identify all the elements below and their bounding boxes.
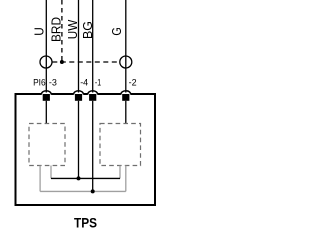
svg-text:PI6: PI6 (33, 77, 46, 87)
svg-text:-4: -4 (80, 77, 88, 87)
connector bump pin -2 (121, 91, 131, 95)
wire G (vertical, to connector pin -2) (125, 0, 127, 93)
connector bump pin -3 (41, 91, 51, 95)
wire pad -2 to right sensor element (125, 101, 127, 124)
svg-text:TPS: TPS (74, 214, 97, 230)
svg-text:G: G (109, 27, 124, 36)
plug circle left on wire U (40, 56, 52, 68)
junction dot gray bus (91, 189, 95, 193)
gray riser right outer (125, 166, 127, 192)
gray bus wire (40, 190, 126, 192)
left sensor element (dashed box) (29, 124, 65, 166)
connector bump pin -1 (88, 91, 98, 95)
pin pad -2 (black square) (122, 94, 129, 101)
svg-text:BRD: BRD (48, 17, 63, 42)
wire BRD/UW (dashed vertical) (61, 0, 63, 62)
pin pad -1 (black square) (89, 94, 96, 101)
pin pad -3 (black square) (43, 94, 50, 101)
black bus wire (51, 177, 120, 179)
junction dot black bus (77, 176, 81, 180)
wire pad -4 down to black bus (78, 101, 80, 179)
plug circle right on wire G (120, 56, 132, 68)
svg-text:UW: UW (65, 19, 80, 39)
gray riser right inner (119, 166, 121, 179)
wire BG (vertical, to connector pin -4) (78, 0, 80, 93)
gray riser left inner (50, 166, 52, 179)
svg-text:-2: -2 (129, 77, 137, 87)
connector bump pin -4 (74, 91, 84, 95)
wire pad -3 to left sensor element (45, 101, 47, 124)
pin pad -4 (black square) (75, 94, 82, 101)
wire U (vertical, to connector pin -3) (45, 0, 47, 93)
junction dot dashed wire UW (60, 60, 64, 64)
svg-text:-3: -3 (49, 77, 57, 87)
wire pad -1 down to gray bus (92, 101, 94, 192)
svg-text:-1: -1 (95, 77, 101, 87)
wire to pin -1 (vertical) (92, 0, 94, 93)
dashed link wire between plug circles (52, 61, 119, 63)
right sensor element (dashed box) (100, 124, 141, 166)
svg-text:U: U (31, 27, 46, 36)
TPS box outline with connector bumps (16, 94, 156, 205)
gray riser left outer (39, 166, 41, 192)
